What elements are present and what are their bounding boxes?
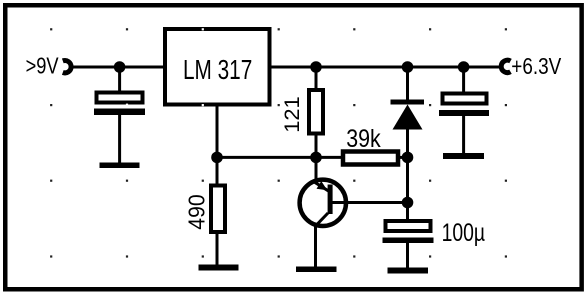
wire: middle rail node ADJ to R2 39k left: [217, 156, 342, 159]
svg-text:100µ: 100µ: [442, 219, 486, 247]
ground G2: [199, 265, 239, 271]
op-amp U1 LM317 box: [165, 29, 270, 105]
wire: top rail down to D1 cathode: [406, 67, 409, 100]
wire: R1 121 bottom to middle rail: [315, 135, 318, 157]
wire: D1 anode to middle node: [406, 129, 409, 157]
resistor R3 490: [211, 186, 225, 233]
node OUT2 junction: [402, 61, 414, 73]
node D junction: [402, 152, 414, 164]
wire: top rail down to R1 121: [315, 67, 318, 89]
node ADJ junction: [211, 152, 223, 164]
svg-text:LM 317: LM 317: [183, 54, 252, 85]
node B junction: [402, 197, 414, 209]
output connector +6.3V: [501, 60, 510, 72]
wire: R3 490 bottom to ground: [216, 234, 219, 266]
wire: C2 to ground: [462, 115, 465, 154]
ground G1: [100, 163, 140, 169]
svg-text:490: 490: [183, 194, 209, 229]
node OUT1 junction: [310, 61, 322, 73]
wire: node down through base node to C3: [406, 157, 409, 221]
wire: R2 39k right to node B: [399, 156, 408, 159]
node OUT3 junction: [458, 61, 470, 73]
wire: Q1 base to node B: [331, 201, 408, 204]
diode D1: [391, 100, 425, 105]
node E junction: [310, 152, 322, 164]
wire: top rail input connector to U1: [70, 66, 165, 69]
transistor Q1 PNP: [300, 180, 346, 226]
ground G3: [296, 267, 337, 273]
wire: output node down to C2: [462, 67, 465, 92]
wire: C3 to ground: [406, 242, 409, 269]
node IN junction: [114, 61, 126, 73]
svg-text:>9V: >9V: [26, 53, 59, 79]
resistor R1 121: [309, 90, 323, 134]
capacitor C2 output electrolytic: [443, 94, 487, 104]
wire: C1 to ground: [118, 114, 121, 164]
wire: Q1 collector down to ground: [314, 226, 317, 268]
svg-text:39k: 39k: [346, 125, 381, 153]
svg-text:121: 121: [280, 96, 304, 132]
wire: middle rail down to Q1 emitter: [315, 157, 318, 182]
wire: node ADJ down to R3 490: [216, 157, 219, 184]
wire: U1 adjust pin down to node ADJ: [216, 105, 219, 157]
capacitor C1 input electrolytic: [97, 93, 143, 103]
svg-text:+6.3V: +6.3V: [511, 53, 561, 79]
capacitor C3 100u electrolytic: [386, 221, 431, 231]
wire: top rail U1 output to +6.3V connector: [270, 66, 501, 69]
ground G4: [388, 268, 429, 274]
wire: input node down to C1: [118, 67, 121, 91]
input connector >9V: [63, 61, 71, 73]
ground G5: [443, 153, 484, 159]
resistor R2 39k: [343, 152, 398, 165]
grid dots: [50, 28, 507, 257]
